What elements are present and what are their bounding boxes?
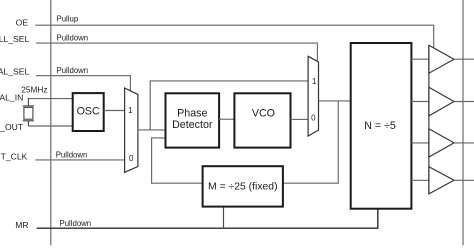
mux U1 (reference select) <box>125 88 138 172</box>
chip boundary right line <box>462 0 464 245</box>
wire OSC output to mux1 input 1 <box>104 110 125 112</box>
wire mux1 output to phase detector <box>138 129 166 131</box>
wire phase detector to VCO <box>219 118 234 120</box>
wire PLL bypass (mux1 out to mux2 input 1) <box>150 81 308 130</box>
mux U2 (PLL bypass select) <box>308 56 318 136</box>
wire buffer 3 output pin <box>454 142 474 144</box>
buffer B1 <box>429 45 454 73</box>
buffer B2 <box>429 87 454 116</box>
wire XTAL_IN to OSC <box>28 98 73 100</box>
svg-text:Phase: Phase <box>177 108 207 120</box>
oscillator OSC <box>73 93 104 131</box>
wire VCO output to mux2 input 0 <box>291 118 309 120</box>
svg-text:25MHz: 25MHz <box>21 85 47 95</box>
svg-text:LL_SEL: LL_SEL <box>0 34 30 44</box>
wire N output to buffer 3 <box>411 142 428 144</box>
svg-text:AL_IN: AL_IN <box>0 93 23 103</box>
phase detector <box>166 93 220 147</box>
pin label XTAL_SEL <box>0 67 29 77</box>
label 25MHz <box>21 85 47 95</box>
wire N output to buffer 4 <box>411 179 428 181</box>
wire buffer enable rail joining buffer edges <box>428 45 430 194</box>
pin label EXT_CLK <box>1 152 28 162</box>
svg-text:Pulldown: Pulldown <box>56 150 88 159</box>
svg-text:Pulldown: Pulldown <box>60 219 92 228</box>
pin label XTAL_IN <box>0 93 23 103</box>
crystal X1 <box>23 99 34 126</box>
wire buffer 2 output pin <box>454 101 474 103</box>
svg-text:OSC: OSC <box>77 106 100 118</box>
wire XTAL_OUT to OSC <box>28 125 72 127</box>
wire mux2 output to divider N <box>319 100 351 102</box>
svg-text:MR: MR <box>15 220 28 230</box>
svg-text:T_CLK: T_CLK <box>1 152 28 162</box>
wire XTAL_SEL to mux1 select <box>36 66 130 91</box>
divider M <box>203 166 283 206</box>
pin label OE <box>16 17 29 27</box>
svg-text:0: 0 <box>311 114 316 123</box>
svg-text:VCO: VCO <box>252 108 275 120</box>
chip boundary left line <box>50 0 52 245</box>
svg-text:Pulldown: Pulldown <box>57 66 89 75</box>
wire buffer 4 output pin <box>454 179 474 181</box>
svg-text:N = ÷5: N = ÷5 <box>364 120 396 132</box>
svg-text:1: 1 <box>312 77 317 86</box>
wire buffer 1 output pin <box>454 58 474 60</box>
divider N <box>351 43 412 209</box>
buffer B3 <box>429 129 454 157</box>
svg-text:Pullup: Pullup <box>57 15 79 24</box>
svg-text:L_OUT: L_OUT <box>0 122 24 132</box>
wire OE (pullup) to buffer enable rail <box>35 15 433 49</box>
wire EXT_CLK to mux1 input 0 <box>35 150 124 160</box>
VCO <box>234 93 290 147</box>
buffer B4 <box>429 167 454 194</box>
wire feedback M output to phase detector <box>152 138 203 183</box>
svg-text:1: 1 <box>128 106 133 115</box>
svg-text:OE: OE <box>16 17 29 27</box>
pin label PLL_SEL <box>0 34 30 44</box>
wire PLL_SEL to mux2 select <box>36 33 317 61</box>
wire MR to dividers <box>37 209 378 229</box>
wire M divider reset stub <box>223 207 225 229</box>
svg-text:Detector: Detector <box>172 119 213 131</box>
svg-text:AL_SEL: AL_SEL <box>0 67 29 77</box>
svg-text:M = ÷25 (fixed): M = ÷25 (fixed) <box>208 182 278 193</box>
wire N output to buffer 2 <box>411 101 428 103</box>
pin label XTAL_OUT <box>0 122 24 132</box>
wire N output to buffer 1 <box>411 58 428 60</box>
svg-text:Pulldown: Pulldown <box>57 33 89 42</box>
pin label MR <box>15 220 28 230</box>
wire branch to divider M input <box>283 101 338 183</box>
svg-text:0: 0 <box>129 154 134 163</box>
